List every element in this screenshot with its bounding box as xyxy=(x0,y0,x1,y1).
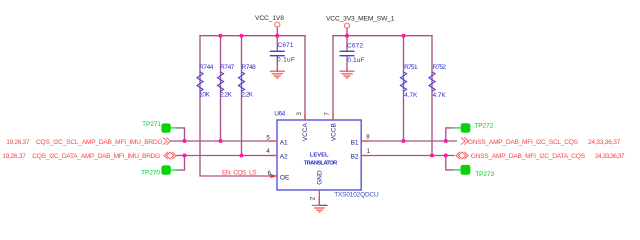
svg-text:24,33,36,37: 24,33,36,37 xyxy=(588,139,621,146)
svg-text:R748: R748 xyxy=(242,64,257,71)
svg-text:VCC_3V3_MEM_SW_1: VCC_3V3_MEM_SW_1 xyxy=(326,15,395,22)
svg-text:2.2K: 2.2K xyxy=(242,92,254,99)
svg-text:8: 8 xyxy=(366,134,370,141)
svg-text:TRANSLATOR: TRANSLATOR xyxy=(304,160,338,166)
svg-text:A1: A1 xyxy=(280,139,288,146)
svg-text:CQS_I2C_DATA_AMP_DAB_MFI_IMU_B: CQS_I2C_DATA_AMP_DAB_MFI_IMU_BRDG xyxy=(32,153,160,160)
svg-text:C672: C672 xyxy=(347,43,363,50)
svg-text:19,26,37: 19,26,37 xyxy=(2,153,26,160)
svg-text:2: 2 xyxy=(310,196,317,200)
svg-text:GNSS_AMP_DAB_MFI_I2C_SCL_CQS: GNSS_AMP_DAB_MFI_I2C_SCL_CQS xyxy=(468,139,579,146)
svg-text:1: 1 xyxy=(367,148,371,155)
svg-text:GND: GND xyxy=(317,170,324,185)
svg-text:U64: U64 xyxy=(274,110,285,117)
svg-text:TXS0102QDCU: TXS0102QDCU xyxy=(334,191,379,198)
svg-text:24,33,36,37: 24,33,36,37 xyxy=(595,153,625,160)
svg-text:OE: OE xyxy=(280,174,290,181)
svg-text:CQS_I2C_SCL_AMP_DAB_MFI_IMU_BR: CQS_I2C_SCL_AMP_DAB_MFI_IMU_BRDG xyxy=(36,139,163,146)
svg-text:B1: B1 xyxy=(351,139,359,146)
svg-text:R752: R752 xyxy=(433,64,447,71)
svg-text:7: 7 xyxy=(324,112,331,116)
svg-text:EN_CQS_LS: EN_CQS_LS xyxy=(222,169,257,176)
svg-text:0.1uF: 0.1uF xyxy=(277,57,295,64)
svg-text:C671: C671 xyxy=(278,42,294,49)
svg-text:VCC_1V8: VCC_1V8 xyxy=(255,15,284,22)
svg-text:TP271: TP271 xyxy=(142,121,161,128)
svg-text:R747: R747 xyxy=(220,64,235,71)
svg-text:4: 4 xyxy=(266,148,270,155)
svg-text:VCCB: VCCB xyxy=(331,123,338,141)
svg-text:B2: B2 xyxy=(351,153,359,160)
svg-text:R744: R744 xyxy=(199,64,214,71)
svg-text:2.2K: 2.2K xyxy=(220,92,232,99)
svg-text:4.7K: 4.7K xyxy=(404,92,418,99)
svg-text:LEVEL: LEVEL xyxy=(310,153,329,159)
svg-text:GNSS_AMP_DAB_MFI_I2C_DATA_CQS: GNSS_AMP_DAB_MFI_I2C_DATA_CQS xyxy=(471,153,586,160)
svg-text:6: 6 xyxy=(268,170,272,177)
svg-text:VCCA: VCCA xyxy=(302,122,309,141)
svg-text:5: 5 xyxy=(266,134,270,141)
svg-text:19,26,37: 19,26,37 xyxy=(6,139,30,146)
svg-text:10K: 10K xyxy=(199,92,210,99)
svg-text:TP270: TP270 xyxy=(141,169,160,176)
svg-text:0.1uF: 0.1uF xyxy=(347,57,364,64)
svg-text:R751: R751 xyxy=(404,64,418,71)
svg-text:3: 3 xyxy=(296,112,303,116)
svg-text:TP273: TP273 xyxy=(475,171,494,178)
svg-text:A2: A2 xyxy=(280,154,288,161)
svg-text:TP272: TP272 xyxy=(474,122,493,129)
svg-text:4.7K: 4.7K xyxy=(433,92,447,99)
